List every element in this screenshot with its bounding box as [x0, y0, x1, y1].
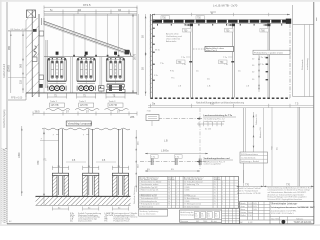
svg-text:1:50: 1:50 [248, 215, 252, 217]
svg-text:Übersichtsplan Leistungs-: Übersichtsplan Leistungs- [271, 202, 298, 205]
svg-text:2: 2 [176, 184, 177, 186]
svg-text:38.5: 38.5 [35, 110, 41, 114]
svg-text:/ 2005: / 2005 [184, 187, 189, 189]
centerline vertical [199, 108, 201, 170]
svg-text:15 Montagematerial: 15 Montagematerial [184, 203, 201, 206]
svg-text:770: 770 [245, 184, 250, 187]
svg-text:Maßst.: Maßst. [240, 214, 246, 217]
top tick right [315, 18, 317, 22]
ceiling line [44, 13, 137, 15]
svg-text:Norm.: Norm. [240, 208, 246, 211]
transformer T3 [106, 52, 125, 93]
svg-text:FFB +0.00: FFB +0.00 [11, 97, 23, 100]
dim row ticks [44, 10, 137, 15]
svg-text:2: 2 [176, 193, 177, 195]
wall box mid [32, 57, 37, 62]
svg-text:770: 770 [286, 184, 291, 187]
svg-text:2: 2 [176, 204, 177, 206]
svg-text:Toleranz: Toleranz [296, 217, 303, 220]
frame right border [313, 2, 315, 224]
svg-text:94: 94 [118, 8, 122, 12]
svg-text:Fundament Pos.5: Fundament Pos.5 [114, 220, 131, 223]
svg-text:1: 1 [222, 198, 223, 200]
svg-text:1: 1 [222, 193, 223, 195]
svg-text:1: 1 [222, 190, 223, 192]
svg-text:Gepr.: Gepr. [240, 205, 245, 208]
svg-text:Datum: Datum [240, 211, 246, 214]
svg-text:Prüfstands: Prüfstands [301, 59, 304, 70]
wall hatched [26, 18, 39, 97]
right dim chain of section [135, 130, 137, 192]
small labels above busbar [161, 16, 170, 19]
svg-text:125 HB: 125 HB [80, 104, 88, 107]
svg-text:8 Verbindungslasche: 8 Verbindungslasche [139, 200, 157, 203]
svg-text:750: 750 [210, 103, 215, 106]
page edge top [0, 0, 320, 2]
svg-text:1050: 1050 [18, 152, 21, 158]
svg-text:25: 25 [214, 181, 216, 183]
under-unit dims [46, 94, 129, 111]
column labels 750 [183, 28, 192, 32]
svg-text:Gez. N.N.: Gez. N.N. [271, 218, 280, 220]
wall dark blob low [39, 84, 43, 88]
svg-text:N.N Stromschiene: N.N Stromschiene [241, 153, 259, 156]
svg-text:2: 2 [176, 201, 177, 203]
outer left dim of section [21, 126, 23, 196]
frame bottom border [7, 223, 314, 225]
busbar end block [286, 19, 291, 24]
svg-text:Frischluft Zugang: Frischluft Zugang [3, 109, 6, 128]
busduct drop 2 [83, 129, 93, 195]
svg-text:2: 2 [176, 195, 177, 197]
svg-text:Fortluft Zuluft: Fortluft Zuluft [3, 64, 6, 78]
svg-text:Trafo 2: Trafo 2 [79, 100, 87, 103]
lower detail dim bottom [145, 169, 200, 172]
plan bottom dim line [148, 105, 314, 107]
svg-text:10 Kleinmaterial: 10 Kleinmaterial [139, 206, 153, 209]
svg-text:115: 115 [20, 79, 23, 84]
svg-text:25: 25 [214, 201, 216, 203]
callout 1 [197, 115, 236, 123]
svg-text:Bl. abt.: Bl. abt. [211, 220, 217, 223]
pedestal 2 [83, 166, 99, 196]
svg-text:/ 2005: / 2005 [184, 201, 189, 203]
svg-text:Leistungstransformatoren 3x630: Leistungstransformatoren 3x6300kVA / 20k… [271, 206, 315, 209]
exhaust duct X-box [27, 10, 36, 18]
svg-text:Bearb.: Bearb. [240, 202, 246, 205]
floor line [26, 92, 137, 94]
left dim of section [43, 129, 45, 205]
wall bracket marks [153, 20, 155, 81]
svg-text:11 Trafo-Anschlussset: 11 Trafo-Anschlussset [184, 180, 203, 183]
pedestal 1 [52, 166, 68, 196]
svg-text:60: 60 [168, 193, 170, 195]
dash-dot line lower [140, 161, 210, 163]
callout 2 [197, 158, 233, 166]
left interior boundary [43, 14, 45, 93]
ground slab hatched [36, 196, 131, 205]
page edge bottom [0, 224, 320, 226]
interior labels [155, 49, 264, 87]
svg-text:14 Beschilderung: 14 Beschilderung [184, 197, 199, 200]
svg-text:60: 60 [168, 181, 170, 183]
svg-text:60: 60 [168, 184, 170, 186]
left margin microtext strip [2, 148, 7, 223]
svg-text:60: 60 [168, 195, 170, 197]
column 2 [228, 24, 236, 98]
svg-text:60: 60 [168, 204, 170, 206]
svg-text:125 HB: 125 HB [109, 104, 117, 107]
svg-text:Stückliste Schienen: Stückliste Schienen [133, 187, 136, 204]
svg-text:2 Laschenverb. isoliert: 2 Laschenverb. isoliert [139, 183, 158, 186]
svg-text:005: 005 [196, 221, 199, 223]
jack symbol left of T3 [99, 86, 104, 91]
svg-text:L.B: L.B [207, 86, 211, 88]
mid vertical dim chain [253, 112, 255, 152]
right boundary line [136, 7, 138, 95]
floor ref line left [8, 99, 26, 101]
svg-text:Cu 60x10 blank: Cu 60x10 blank [241, 157, 256, 159]
svg-text:isoliert ausgeführt: isoliert ausgeführt [204, 163, 222, 166]
svg-text:TGKP-1P-E3-001: TGKP-1P-E3-001 [294, 222, 313, 224]
right dash-dot boundary [289, 24, 291, 98]
svg-text:13 Türkontakt: 13 Türkontakt [184, 194, 196, 197]
tray end block [125, 50, 130, 55]
svg-text:780: 780 [36, 160, 40, 165]
busbar band dashed dark [153, 20, 291, 23]
svg-text:Anbauteile: Anbauteile [166, 40, 177, 43]
dim 973.5 line [44, 6, 137, 8]
svg-text:L+L.B./W.TB - 2x70: L+L.B./W.TB - 2x70 [213, 3, 238, 7]
under-ground dim [52, 207, 128, 211]
left dim chain of plan [145, 14, 147, 96]
svg-text:1: 1 [222, 204, 223, 206]
detail vertical double [243, 108, 245, 183]
duct drop at top [41, 18, 43, 25]
svg-text:L.B-Da: L.B-Da [161, 150, 169, 153]
svg-text:25: 25 [214, 184, 216, 186]
svg-text:125 HB: 125 HB [51, 104, 59, 107]
wall small box low [39, 75, 43, 80]
svg-text:2: 2 [176, 187, 177, 189]
svg-text:Messung: Messung [180, 221, 188, 223]
break line top [42, 128, 130, 130]
svg-text:60: 60 [168, 198, 170, 200]
svg-text:7960: 7960 [203, 221, 207, 223]
bottom dim chain of elevation [33, 112, 137, 116]
left wall of plan [149, 14, 151, 98]
svg-text:L.B: L.B [164, 140, 168, 143]
pruefstand callout box [253, 50, 290, 54]
svg-text:nur zur Information: nur zur Information [140, 212, 156, 215]
small table mid [240, 152, 268, 163]
rod feet [73, 55, 119, 57]
svg-text:Ersatz für Zeichn. 4711-88: Ersatz für Zeichn. 4711-88 [237, 192, 261, 195]
column 1 [186, 24, 194, 98]
svg-text:25: 25 [214, 190, 216, 192]
svg-text:25: 25 [214, 198, 216, 200]
bay divider lines [71, 57, 102, 93]
pedestal 3 [112, 166, 128, 196]
svg-text:Schienenanlage: Schienenanlage [180, 214, 194, 216]
frame left border [6, 2, 8, 224]
svg-text:Naturbelüftung / spätere pr: Naturbelüftung / spätere prüfstandserwei… [196, 102, 245, 105]
svg-text:2675: 2675 [133, 53, 137, 60]
col3 T-marks [266, 57, 269, 80]
mid column boxed labels [177, 60, 228, 64]
Vorschlag proposal box [66, 121, 91, 126]
level leader line [8, 30, 33, 32]
svg-text:Name: Name [248, 212, 253, 214]
svg-text:beidseitig verschraubt: beidseitig verschraubt [204, 120, 226, 123]
svg-text:A: A [211, 11, 213, 15]
right dim line 2675 [132, 14, 134, 93]
svg-text:Dachausschnitt: Dachausschnitt [78, 220, 92, 223]
svg-text:973.5: 973.5 [83, 3, 91, 7]
svg-text:60: 60 [168, 201, 170, 203]
svg-text:Abstand 50: Abstand 50 [259, 127, 262, 138]
svg-text:6 Stützisolator SI-30: 6 Stützisolator SI-30 [139, 194, 156, 197]
svg-text:12 Isolierung T.To: 12 Isolierung T.To [184, 183, 199, 186]
conduit drop double [45, 40, 47, 88]
svg-text:Schiene 30: Schiene 30 [256, 114, 258, 125]
level line mid [8, 76, 26, 78]
svg-text:25: 25 [214, 193, 216, 195]
svg-text:1 Stromschiene Cu 60x10: 1 Stromschiene Cu 60x10 [139, 180, 161, 183]
svg-text:25: 25 [214, 187, 216, 189]
flex hook 2 [34, 51, 37, 57]
svg-text:/ 2005: / 2005 [184, 190, 189, 192]
small dim chain under callout1 [197, 122, 224, 126]
wall clamp dark [33, 29, 37, 32]
svg-text:(2590): (2590) [8, 65, 11, 72]
left dim chain a [22, 31, 24, 93]
page edge left [0, 0, 2, 226]
flex hook 1 [34, 46, 37, 52]
svg-text:N.N.: N.N. [253, 209, 257, 211]
svg-text:1: 1 [222, 195, 223, 197]
svg-text:25: 25 [214, 204, 216, 206]
svg-text:Trafo 1: Trafo 1 [50, 100, 58, 103]
svg-text:6x 125: 6x 125 [205, 129, 212, 131]
svg-text:1: 1 [222, 201, 223, 203]
svg-text:16 Dokumentation: 16 Dokumentation [184, 206, 199, 209]
svg-text:4 Halter Decke Typ D1: 4 Halter Decke Typ D1 [139, 189, 158, 192]
svg-text:Schutzart IP00 / Zugänglichkei: Schutzart IP00 / Zugänglichkeit beachten [268, 198, 302, 201]
svg-text:A2: A2 [240, 221, 242, 224]
svg-text:1: 1 [222, 187, 223, 189]
svg-text:Trafo 3: Trafo 3 [109, 100, 117, 103]
svg-text:286: 286 [130, 115, 135, 119]
svg-text:Prüfstandserw. / spätere erwei: Prüfstandserw. / spätere erweit. [254, 52, 284, 55]
section cut markers [151, 159, 201, 166]
open side dashed line [150, 97, 290, 99]
svg-text:Isolierung n. Bedarf: Isolierung n. Bedarf [241, 160, 259, 163]
dash-dot line upper [158, 118, 199, 120]
transformer T1 [48, 52, 66, 93]
svg-text:3 Wandhalter Typ W2: 3 Wandhalter Typ W2 [139, 186, 157, 189]
svg-text:N.N.: N.N. [253, 203, 257, 205]
svg-text:erweiterung: erweiterung [306, 58, 309, 70]
support line over units [44, 56, 133, 58]
plan top dim line [152, 14, 290, 16]
svg-text:1: 1 [222, 181, 223, 183]
transformer T2 [77, 52, 95, 93]
svg-text:1: 1 [222, 184, 223, 186]
svg-text:offen Pos.5: offen Pos.5 [206, 50, 218, 52]
left mini detail box [146, 115, 159, 126]
svg-text:565: 565 [20, 63, 23, 68]
column 3 [263, 24, 271, 98]
wall bracket box [39, 31, 43, 36]
svg-text:6300 kVA / 20 kV Halle 5: 6300 kVA / 20 kV Halle 5 [271, 212, 295, 215]
svg-text:2: 2 [176, 190, 177, 192]
col3 dim chain [258, 55, 260, 92]
busduct drop 1 [53, 129, 63, 195]
svg-text:25: 25 [214, 195, 216, 197]
svg-text:94: 94 [78, 8, 82, 12]
svg-text:2: 2 [176, 181, 177, 183]
hanger rods [63, 14, 119, 57]
svg-text:9 Erdungsband 25 qmm: 9 Erdungsband 25 qmm [139, 203, 160, 206]
svg-text:60: 60 [168, 190, 170, 192]
abdeckblech callout box [205, 46, 234, 51]
svg-text:N.N.: N.N. [253, 206, 257, 208]
svg-text:S 1/2: S 1/2 [248, 222, 252, 224]
left dim chain b [10, 31, 12, 93]
svg-text:7 Schraubensatz M12: 7 Schraubensatz M12 [139, 197, 157, 200]
lower detail dim top [145, 153, 208, 159]
right extension room [292, 5, 294, 97]
svg-text:2: 2 [176, 198, 177, 200]
svg-text:W.To: W.To [155, 49, 161, 51]
slanted cable tray [44, 21, 128, 51]
svg-text:Vorschlag / proposal: Vorschlag / proposal [68, 122, 93, 126]
svg-text:60: 60 [168, 187, 170, 189]
busduct drop 3 [119, 129, 123, 195]
